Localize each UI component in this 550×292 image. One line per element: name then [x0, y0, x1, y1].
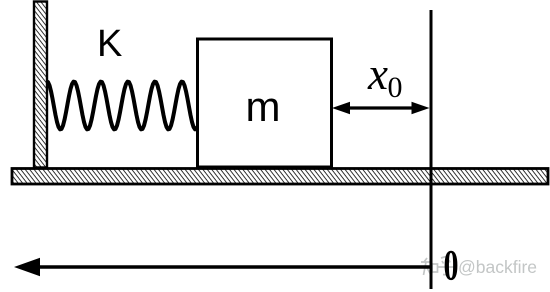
wall — [34, 2, 47, 168]
floor (ground) — [12, 169, 548, 185]
svg-text:0: 0 — [444, 242, 459, 290]
svg-text:m: m — [246, 83, 281, 130]
label x0 — [367, 49, 403, 104]
watermark zhihu @backfire — [420, 257, 455, 276]
block m — [198, 39, 332, 167]
spring K — [48, 82, 198, 130]
svg-text:0: 0 — [388, 71, 403, 104]
bottom axis arrow — [14, 258, 431, 276]
vertical reference line — [430, 10, 433, 289]
svg-text:K: K — [97, 23, 122, 65]
x0 double arrow — [332, 102, 430, 114]
svg-text:x: x — [367, 49, 388, 99]
svg-text:@backfire: @backfire — [458, 257, 537, 277]
